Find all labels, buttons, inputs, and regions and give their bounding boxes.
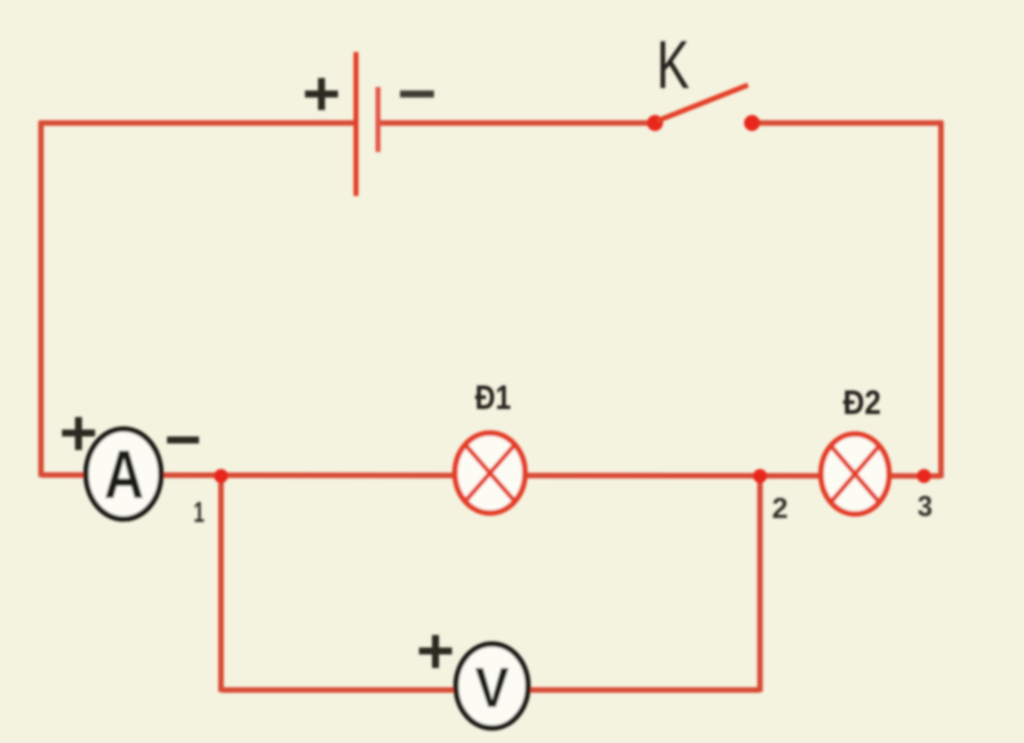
- battery cell: short negative plate: [376, 87, 381, 152]
- lamp D2: cross stroke 2: [831, 446, 879, 502]
- node 3 junction dot: [917, 469, 931, 483]
- node 1 junction dot: [214, 469, 228, 483]
- svg-text:K: K: [657, 27, 690, 103]
- battery plus sign: [305, 78, 338, 110]
- switch K: blade: [657, 85, 748, 121]
- svg-text:1: 1: [194, 497, 205, 529]
- wire: bottom horizontal through voltmeter: [221, 687, 760, 693]
- ammeter minus sign: [167, 437, 199, 444]
- wire: left vertical side: [38, 121, 44, 477]
- svg-text:3: 3: [918, 491, 933, 523]
- wire: switch right contact to top right corner: [752, 120, 943, 126]
- voltmeter V: body circle: [456, 644, 528, 728]
- wire: right vertical side: [938, 121, 944, 478]
- wire: middle horizontal row: [41, 475, 941, 476]
- svg-text:Đ2: Đ2: [843, 384, 881, 422]
- wire: battery negative plate to switch left contact: [378, 120, 655, 126]
- lamp D1: cross stroke 2: [466, 445, 515, 501]
- lamp D1: body circle: [455, 433, 525, 513]
- wire: vertical from voltmeter branch up to node 2: [757, 476, 763, 692]
- wire: vertical from node 1 down to voltmeter branch: [218, 476, 224, 692]
- svg-text:2: 2: [772, 493, 788, 525]
- svg-text:A: A: [104, 436, 144, 513]
- ammeter A: body circle: [86, 429, 161, 519]
- lamp D1: cross stroke 1: [466, 445, 515, 501]
- wire: top left horizontal from left corner to battery positive plate: [39, 120, 355, 126]
- battery minus sign: [400, 91, 434, 98]
- svg-text:V: V: [475, 656, 509, 720]
- ammeter plus sign: [62, 417, 95, 450]
- svg-text:Đ1: Đ1: [475, 379, 511, 417]
- node 2 junction dot: [753, 469, 767, 483]
- lamp D2: body circle: [821, 434, 889, 514]
- battery cell: long positive plate: [354, 52, 359, 196]
- voltmeter plus sign: [419, 635, 452, 668]
- switch K: left contact dot: [647, 115, 663, 131]
- lamp D2: cross stroke 1: [831, 446, 879, 502]
- switch K: right contact dot: [744, 115, 760, 131]
